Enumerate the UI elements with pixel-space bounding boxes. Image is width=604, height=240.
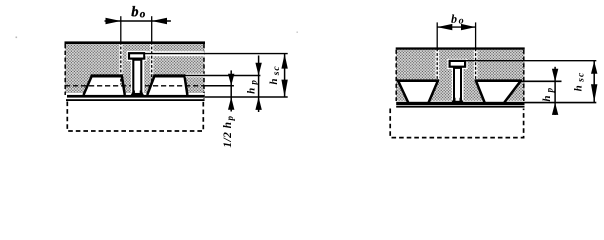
halo for b_o extension lines (right) [435,50,439,79]
deck rib right (left fig) [147,76,187,95]
dimension b_o (left): dimension line [105,20,171,22]
stud shank (right) [454,68,461,102]
b_o right arrowhead (right fig, inside) [461,24,476,30]
b_o right arrowhead (left fig) [152,18,167,25]
sheeting base line thick (right) [396,102,524,105]
b_o left arrowhead (right fig, inside) [437,24,452,30]
leader centre line extension (left) [205,85,234,87]
beam flange top line (right) [396,106,524,108]
svg-text:hp: hp [245,80,258,94]
faint scan speckle top-left [16,37,18,39]
stud shank (left) [133,60,141,94]
steel beam dashed outline (left) [67,102,203,132]
slab left cut edge dashed (left) [64,44,66,95]
slab left cut edge dashed (right) [395,50,397,101]
b_o right extension line (left fig) [151,16,153,42]
stud head (right) [450,61,466,67]
dimension 1/2 h_p (left fig): line [230,70,232,111]
deck rib left (left fig) [84,76,125,95]
concrete slab hatch (right) [396,50,525,101]
svg-text:b: b [131,4,138,20]
slab top edge (left) [65,41,206,44]
leader from stud head top (left) [145,51,204,56]
h_sc upper arrowhead (up, to stud top) [281,54,287,69]
leader from rib top (left) [186,74,205,78]
1/2 h_p lower arrowhead (up, to base) [228,97,234,110]
stud head (left) [129,53,144,58]
b_o left extension line (right fig) [436,22,438,48]
h_sc lower arrowhead (down, to base) [281,80,287,98]
label 1/2 h_p rotated [222,115,235,147]
concrete slab hatch (left) [65,43,205,94]
label h_p rotated (right fig) [541,87,554,101]
white clearance around stud (left) [127,51,147,61]
white band above sheeting (left) [66,93,205,95]
slab right cut edge dashed (left) [203,44,205,99]
h_sc upper arrowhead (up, to stud top) [591,61,597,74]
b_o left extension line (left fig) [120,16,122,42]
svg-text:o: o [459,16,464,27]
svg-text:b: b [451,12,457,26]
svg-text:o: o [140,8,146,20]
stud weld collar (right) [452,98,456,102]
label h_sc rotated (right fig) [573,72,587,92]
steel beam dashed outline (right) [390,109,523,138]
dimension h_p (left fig): line [258,56,260,113]
h_p lower arrowhead (up, to base) [552,103,558,115]
leader from rib top (right) [519,80,562,82]
svg-text:hsc: hsc [573,72,587,92]
svg-text:hp: hp [541,87,554,101]
slab top edge (right) [396,47,525,49]
stud weld collar (left) [131,91,135,96]
dimension b_o (right): dimension line [437,26,475,28]
label h_sc rotated (left fig) [268,65,282,84]
slab right cut edge dashed (right) [523,50,525,101]
label b_o (left fig) [131,4,146,20]
b_o right extension line (right fig) [475,22,477,48]
h_p upper arrowhead (down, to rib top) [552,69,558,82]
svg-text:hsc: hsc [268,65,282,84]
halo for b_o extension lines (left) [119,44,122,75]
steel sheeting base line thick (left) [67,95,205,98]
dimension h_sc (right fig): line [593,61,595,103]
beam flange top line (left) [66,99,205,101]
leader from stud head top (right) [466,60,596,62]
faint scan speckle mid [297,32,298,33]
leader from sheeting base (right) [525,102,597,104]
dovetail rib right (right fig) [475,81,522,103]
dimension h_p (right fig): line [554,67,556,115]
h_sc lower arrowhead (down, to base) [591,84,597,102]
1/2 h_p upper arrowhead (down, to centre line) [228,74,234,86]
h_p upper arrowhead (down, to rib top) [255,63,261,76]
h_p lower arrowhead (up, to base) [255,97,261,110]
label b_o (right fig) [451,12,464,27]
halo around stud (right) [447,59,467,69]
leader from sheeting base (left) [205,96,288,98]
dimension h_sc (left fig): line [284,54,286,97]
dovetail rib left (right fig) [397,81,439,103]
b_o left arrowhead (left fig) [106,18,121,25]
centre line (dash-dot) at rib mid-height [65,85,234,87]
label h_p rotated (left fig) [245,80,258,94]
svg-text:1/2 hp: 1/2 hp [222,115,235,147]
